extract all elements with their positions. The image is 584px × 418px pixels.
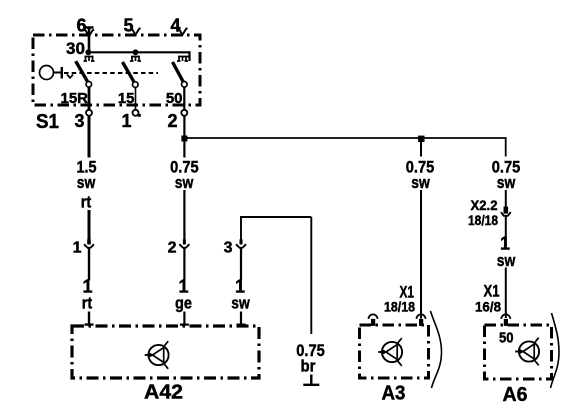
wire down to A6 [505, 268, 507, 319]
key actuator circle [40, 66, 54, 80]
svg-text:18/18: 18/18 [384, 299, 415, 315]
wire down to A3 connector [420, 190, 422, 319]
pin 2 circle [181, 110, 187, 116]
svg-text:2: 2 [168, 240, 177, 257]
switch blade 2 [123, 62, 135, 82]
A3 unused pin socket arc [369, 314, 378, 318]
svg-text:sw: sw [175, 173, 194, 192]
svg-text:30: 30 [66, 39, 85, 58]
svg-text:A42: A42 [144, 382, 183, 404]
moving contact circle 3 [182, 82, 188, 88]
wire connector 3 up and over [241, 217, 311, 244]
wire horizontal feed to A3 A6 [184, 138, 505, 157]
moving contact circle 1 [86, 82, 92, 88]
svg-text:2: 2 [167, 111, 177, 131]
horn symbol A6 [515, 338, 539, 366]
key actuator bar [61, 67, 63, 79]
wire junction down to A3 [420, 141, 422, 157]
A3 continuation squiggle [431, 311, 442, 388]
wire into A42 pin rt [85, 312, 94, 326]
pin 1 circle [133, 110, 139, 116]
fanfare horns A42 box [72, 326, 259, 378]
pin 4 socket chevron [177, 29, 187, 35]
svg-text:4: 4 [170, 16, 180, 36]
A6 continuation squiggle [551, 313, 560, 388]
moving contact circle 2 [133, 82, 139, 88]
svg-text:50: 50 [166, 90, 183, 107]
svg-text:X2.2: X2.2 [471, 197, 498, 213]
inline connector 3 chevron [240, 239, 243, 244]
svg-text:rt: rt [82, 294, 93, 313]
wire above connector 1 [88, 210, 91, 244]
wire above connector 2 [183, 190, 185, 244]
svg-text:sw: sw [77, 173, 96, 192]
inline connector X2.2 chevron [501, 212, 510, 216]
inline connector 1 chevron [87, 239, 91, 244]
key actuator link line [54, 72, 62, 74]
horn symbol A3 [378, 338, 402, 366]
svg-text:sw: sw [497, 173, 516, 192]
wire below connector 2 [183, 248, 185, 281]
svg-text:50: 50 [499, 331, 514, 347]
svg-text:1: 1 [121, 111, 131, 131]
fixed contact 3 [177, 57, 190, 62]
pin 1 marker square [138, 114, 141, 117]
junction dot bus left [85, 49, 91, 55]
A6 pin socket arc [501, 314, 510, 318]
svg-text:sw: sw [497, 251, 516, 270]
mechanical coupling dashed line [64, 72, 158, 74]
pin 5 socket chevron [130, 29, 140, 35]
switch blade 1 [76, 61, 88, 81]
ignition starter switch S1 box [33, 35, 200, 105]
key actuator small chevron [67, 75, 73, 78]
svg-text:A3: A3 [382, 383, 406, 405]
svg-text:15: 15 [118, 90, 135, 107]
junction dot bus middle [133, 49, 139, 55]
wire below X2.2 [505, 216, 507, 237]
svg-text:16/8: 16/8 [475, 299, 501, 315]
svg-text:S1: S1 [36, 111, 59, 133]
wire below connector 1 [88, 248, 90, 281]
pin 3 circle [86, 110, 92, 116]
junction square node A3 branch [418, 136, 424, 142]
terminal 30 bus wire [88, 52, 190, 61]
wire pin3 down [88, 116, 91, 157]
wire ground branch down [310, 217, 312, 334]
wire contact3 to pin2 [183, 87, 185, 109]
horn A3 box [360, 325, 429, 378]
junction square node [181, 136, 187, 142]
ground terminal symbol [303, 375, 319, 385]
svg-text:1: 1 [73, 240, 82, 257]
svg-text:sw: sw [231, 294, 250, 313]
wire contact1 to pin3 [88, 87, 91, 109]
wire down to A6 chevron [505, 190, 507, 207]
inline connector 2 chevron [183, 239, 186, 244]
wire contact2 to pin1 [135, 88, 137, 110]
svg-text:br: br [301, 357, 316, 376]
pin 6 socket chevron [84, 30, 94, 36]
svg-text:ge: ge [175, 294, 192, 313]
svg-text:rt: rt [81, 193, 92, 212]
wire into A42 pin sw [237, 312, 246, 326]
wire pin2 down to junction [183, 116, 185, 157]
wire below connector 3 [240, 248, 242, 281]
svg-text:5: 5 [123, 16, 133, 36]
switch blade 3 [173, 62, 184, 82]
svg-text:3: 3 [74, 111, 84, 131]
svg-text:18/18: 18/18 [468, 212, 498, 228]
starter relay A6 box [485, 325, 552, 379]
svg-text:sw: sw [411, 173, 430, 192]
svg-text:A6: A6 [503, 384, 528, 406]
svg-text:3: 3 [224, 240, 233, 257]
A3 pin socket arc [417, 314, 426, 318]
pin 6 wire stub with end cap [85, 28, 94, 53]
fixed contact 1 [84, 57, 95, 62]
horn symbol A42 [145, 341, 169, 369]
fixed contact 2 [130, 57, 141, 62]
wire into A42 pin ge [180, 312, 189, 326]
svg-text:6: 6 [76, 16, 86, 36]
svg-text:15R: 15R [61, 90, 89, 107]
